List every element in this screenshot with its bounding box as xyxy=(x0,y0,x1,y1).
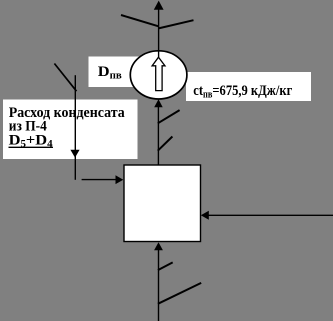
slash lower on circle-box line xyxy=(158,137,173,151)
arrowhead into heater box left xyxy=(116,175,124,184)
wire: outlet line above circle xyxy=(158,8,160,57)
arrowhead into heater box bottom xyxy=(154,242,163,250)
condensate stream: vertical wire through label box xyxy=(74,75,76,180)
slash right on top line xyxy=(159,20,194,28)
wire: inlet line below heater box xyxy=(158,248,160,321)
slash left on top line xyxy=(121,15,159,26)
label box: ctпв=675,9 кДж/кг (white panel) xyxy=(186,72,311,101)
label box: Dпв (white panel) xyxy=(89,57,144,88)
circle (pump/flow symbol) xyxy=(130,51,187,99)
heater box (main apparatus) xyxy=(124,165,201,242)
arrowhead top outlet xyxy=(154,1,164,10)
label box: Расход конденсата из П-4 D5+D4 (white panel) xyxy=(3,100,138,160)
slash long on bottom line xyxy=(158,283,201,304)
condensate stream: diagonal slash top-left xyxy=(54,64,76,92)
block arrow inside circle xyxy=(152,57,165,90)
slash short on bottom line xyxy=(158,262,173,270)
underline under D5+D4 xyxy=(9,146,54,148)
wire: horizontal into heater box left xyxy=(82,179,116,181)
arrowhead down (condensate) xyxy=(70,150,79,158)
arrowhead into circle bottom xyxy=(154,99,163,107)
slash upper on circle-box line xyxy=(158,110,180,123)
wire: horizontal inlet from right edge xyxy=(208,214,333,216)
wire: line from heater box top to circle bottom xyxy=(157,104,159,165)
arrowhead into heater box right xyxy=(201,211,209,220)
